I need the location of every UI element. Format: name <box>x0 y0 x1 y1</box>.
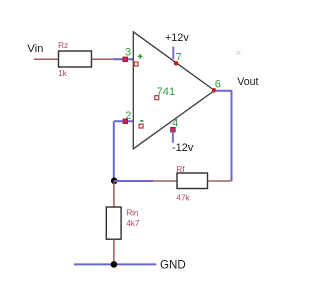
connection dot pin 7 <box>174 61 179 66</box>
wire node to Rf (blue part) <box>114 180 153 182</box>
wire pin 2 horizontal <box>114 120 134 122</box>
svg-text:4k7: 4k7 <box>126 218 140 228</box>
wire Vin to Rz <box>34 58 59 60</box>
wire Rin bottom lead to ground <box>113 239 115 264</box>
wire node down to Rin (red lead) <box>113 181 115 207</box>
plus sign non-inverting input <box>138 54 143 59</box>
svg-text:Vout: Vout <box>237 76 258 88</box>
ground rail wire <box>74 263 156 265</box>
ground junction dot <box>111 261 118 268</box>
op-amp U1 triangle <box>133 32 214 149</box>
svg-text:-12v: -12v <box>172 142 194 154</box>
junction handle on pin 3 wire <box>123 57 128 62</box>
svg-text:Rz: Rz <box>58 40 68 50</box>
svg-text:+12v: +12v <box>165 32 189 44</box>
handle pin 4 <box>171 127 176 132</box>
handle square near plus <box>134 62 138 66</box>
wire Vout: right then down <box>215 91 232 181</box>
svg-text:741: 741 <box>157 86 176 98</box>
wire +12v supply stub pin 7 <box>172 47 174 60</box>
svg-text:Rin: Rin <box>126 207 139 217</box>
minus sign inverting input <box>140 120 143 122</box>
wire Rf right lead to Vout wire <box>208 180 232 182</box>
connection dot pin 6 <box>212 88 217 93</box>
wire red lead into Rf left <box>153 180 177 182</box>
svg-text:3: 3 <box>125 46 131 58</box>
resistor Rin <box>106 207 121 239</box>
svg-text:GND: GND <box>160 258 186 271</box>
svg-text:47k: 47k <box>176 193 190 203</box>
svg-text:1k: 1k <box>58 68 68 78</box>
junction handle on pin 2 wire <box>123 119 128 124</box>
wire -12v supply stub pin 4 <box>172 132 174 143</box>
svg-text:6: 6 <box>215 79 221 91</box>
faint artifact mark <box>237 51 241 56</box>
wire feedback vertical from pin 2 down to node <box>113 121 115 181</box>
svg-text:Vin: Vin <box>27 43 43 55</box>
wire Rz to pin3 (red lead) <box>92 58 114 60</box>
handle square near 741 <box>155 96 159 100</box>
resistor R2 (Rz) <box>59 51 92 67</box>
handle square near minus <box>139 124 143 128</box>
node A junction dot <box>111 178 118 185</box>
wire blue segment into pin 3 <box>113 58 133 60</box>
svg-text:Rf: Rf <box>176 164 185 174</box>
resistor Rf <box>177 173 208 189</box>
